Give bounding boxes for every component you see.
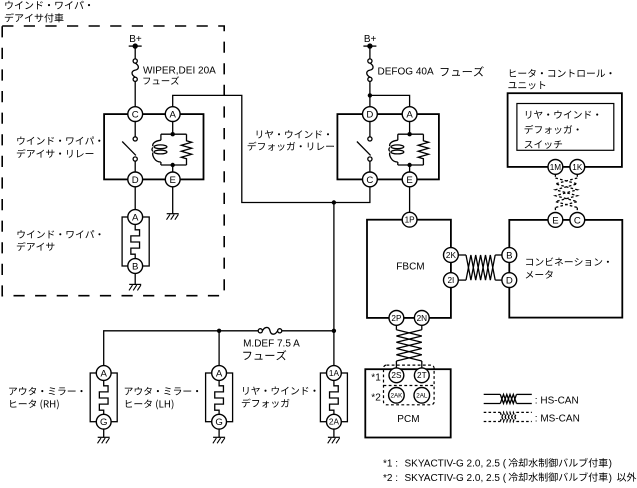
svg-text:): )	[609, 473, 612, 484]
node B+ terminal WIPER	[129, 43, 142, 48]
wire WIPER,DEI fuse to relay terminal C	[134, 81, 136, 106]
label rear window defogger relay line1	[257, 130, 329, 138]
label LH mirror heater line1	[125, 387, 198, 395]
label B+ WIPER	[129, 34, 142, 45]
box rear window defogger switch	[517, 104, 614, 151]
terminal 2AL PCM	[414, 388, 430, 404]
wire B+ feed to WIPER,DEI fuse	[134, 46, 136, 59]
node junction LH heater on bus	[217, 329, 221, 366]
heater element rear window defogger	[330, 380, 339, 414]
svg-text:1M: 1M	[550, 163, 562, 172]
terminal 2K FBCM	[444, 248, 459, 263]
terminal 2A rear window defogger	[327, 414, 342, 429]
terminal D WIPER relay	[128, 172, 143, 187]
wire bus row with mirror heaters	[104, 331, 259, 366]
wire deicer B to ground	[134, 273, 136, 284]
switch inside WIPER relay	[122, 137, 137, 161]
dashed group star1 and star2 terminals	[384, 365, 435, 405]
svg-text:DEFOG 40A: DEFOG 40A	[378, 66, 434, 77]
box FBCM	[367, 220, 451, 318]
svg-text:G: G	[100, 417, 107, 428]
terminal C WIPER relay	[128, 107, 143, 122]
terminal 2T PCM	[414, 368, 429, 383]
element RH mirror heater box	[90, 373, 117, 422]
heater element inside deicer	[131, 224, 140, 258]
svg-text:WIPER,DEI 20A: WIPER,DEI 20A	[143, 65, 216, 76]
terminal D DEFOG relay	[363, 107, 378, 122]
svg-text:C: C	[574, 215, 581, 226]
svg-text:: MS-CAN: : MS-CAN	[535, 414, 580, 425]
svg-text:: HS-CAN: : HS-CAN	[535, 396, 579, 407]
svg-text:G: G	[215, 417, 222, 428]
label combination meter line1	[526, 257, 609, 266]
terminal G RH mirror heater	[96, 414, 111, 429]
terminal B deicer	[128, 259, 143, 274]
legend MS-CAN text	[535, 414, 580, 425]
label star2	[371, 393, 381, 404]
svg-text:A: A	[132, 212, 139, 223]
svg-text:2AK: 2AK	[390, 393, 403, 400]
fuse WIPER,DEI 20A	[132, 59, 138, 82]
terminal 1K heater control	[570, 160, 585, 175]
footnote star1	[383, 458, 612, 470]
label combination meter line2	[526, 270, 553, 278]
terminal G LH mirror heater	[212, 414, 227, 429]
ground under RH mirror heater	[98, 437, 110, 443]
terminal 2AK PCM	[389, 388, 405, 404]
wire HS-CAN twisted pair FBCM to meter	[458, 255, 502, 280]
node junction above DEFOG relay	[368, 93, 410, 107]
terminal A DEFOG relay	[402, 107, 417, 122]
label windshield wiper deicer line1	[18, 230, 101, 238]
wire DEFOG fuse to junction above relay	[369, 81, 371, 95]
box heater control unit	[508, 93, 622, 167]
ground under LH mirror heater	[213, 437, 225, 443]
label RH mirror heater line1	[9, 387, 82, 395]
svg-text:C: C	[366, 175, 373, 186]
terminal 1A rear window defogger	[327, 366, 342, 381]
node coil top junction WIPER	[171, 132, 175, 136]
terminal E WIPER relay	[165, 172, 180, 187]
svg-text:2S: 2S	[391, 371, 402, 380]
svg-text:A: A	[216, 368, 223, 379]
svg-text:B+: B+	[129, 34, 142, 45]
terminal E combination meter	[548, 213, 563, 228]
svg-text:A: A	[100, 368, 107, 379]
wire WIPER relay D to deicer A	[134, 187, 136, 210]
svg-text:B: B	[506, 250, 512, 261]
svg-text:E: E	[169, 175, 175, 186]
svg-text:E: E	[552, 215, 558, 226]
svg-text:*1 :: *1 :	[383, 459, 398, 470]
relay box rear window defogger relay	[337, 114, 439, 179]
footnote star2	[383, 472, 636, 484]
label windshield wiper deicer line2	[17, 242, 55, 251]
svg-text:2A: 2A	[329, 418, 340, 427]
terminal 2S PCM	[389, 368, 404, 383]
wire B+ feed to DEFOG fuse	[369, 46, 371, 59]
svg-text:2N: 2N	[417, 314, 428, 323]
svg-text:2T: 2T	[417, 371, 427, 380]
node junction cross wire / defogger feed	[332, 200, 336, 330]
terminal A deicer	[128, 210, 143, 225]
svg-text:A: A	[169, 110, 176, 121]
label star1	[371, 372, 381, 383]
box combination meter	[509, 220, 622, 318]
wire DEFOG coil stubs	[409, 121, 411, 172]
heater element LH mirror	[215, 380, 224, 414]
terminal 1P FBCM	[402, 212, 417, 227]
svg-text:D: D	[366, 110, 373, 121]
svg-text:2P: 2P	[391, 314, 402, 323]
terminal 2N FBCM	[414, 311, 429, 326]
label PCM	[397, 414, 419, 425]
node coil bottom junction DEFOG	[407, 163, 411, 167]
wire RH heater G to ground	[103, 429, 105, 437]
wire WIPER switch stubs	[134, 121, 136, 172]
svg-text:1P: 1P	[405, 216, 416, 225]
svg-text:2I: 2I	[447, 276, 454, 285]
coil and resistor inside DEFOG relay	[389, 134, 429, 165]
ground under rear window defogger	[328, 437, 340, 443]
label windshield wiper deicer equipped line2	[5, 13, 64, 22]
coil and resistor inside WIPER relay	[152, 134, 192, 165]
wire WIPER coil stubs	[172, 121, 174, 172]
svg-text:*2 :: *2 :	[383, 473, 398, 484]
svg-text:2K: 2K	[446, 251, 457, 260]
svg-text:SKYACTIV-G 2.0, 2.5 (: SKYACTIV-G 2.0, 2.5 (	[405, 459, 507, 470]
svg-text:B: B	[132, 261, 138, 272]
svg-text:D: D	[506, 276, 513, 287]
node junction defogger column on bus	[282, 329, 336, 366]
terminal B combination meter	[502, 248, 517, 263]
label rear window defogger switch line2	[525, 125, 579, 134]
wire WIPER relay A up-right-down to cross wire	[173, 95, 334, 202]
label M.DEF fuse	[243, 338, 300, 349]
dashed option box (with windshield wiper deicer)	[2, 26, 224, 296]
fuse M.DEF 7.5A	[258, 327, 282, 334]
terminal C DEFOG relay	[363, 172, 378, 187]
svg-text:*2: *2	[371, 393, 381, 404]
label heater control unit line1	[510, 69, 612, 77]
terminal E DEFOG relay	[402, 172, 417, 187]
wire MS-CAN twisted pair heater control to meter	[555, 174, 577, 212]
element LH mirror heater box	[206, 373, 233, 422]
svg-text:E: E	[406, 175, 412, 186]
terminal A LH mirror heater	[212, 366, 227, 381]
switch inside DEFOG relay	[357, 137, 372, 161]
fuse DEFOG 40A	[367, 59, 373, 82]
element windshield wiper deicer box	[122, 217, 149, 266]
legend HS-CAN text	[535, 396, 579, 407]
svg-text:SKYACTIV-G 2.0, 2.5 (: SKYACTIV-G 2.0, 2.5 (	[405, 473, 507, 484]
label heater control unit line2	[508, 81, 545, 89]
svg-text:PCM: PCM	[397, 414, 419, 425]
label RH mirror heater line2	[10, 399, 58, 409]
wire cross to DEFOG relay C	[334, 187, 370, 203]
ground under deicer B	[129, 284, 141, 290]
label rear window defogger line2	[242, 399, 290, 408]
wire rear defogger 2A to ground	[333, 429, 335, 437]
svg-text:B+: B+	[364, 34, 377, 45]
svg-text:FBCM: FBCM	[396, 262, 424, 273]
relay box windshield wiper deicer relay	[104, 114, 203, 179]
svg-text:C: C	[132, 110, 139, 121]
svg-text:A: A	[406, 110, 413, 121]
node coil bottom junction WIPER	[171, 163, 175, 167]
label fuse JP WIPER	[143, 76, 179, 84]
svg-text:M.DEF 7.5 A: M.DEF 7.5 A	[243, 338, 300, 349]
label M.DEF fuse JP	[243, 350, 286, 360]
terminal 2I FBCM	[444, 273, 459, 288]
terminal 1M heater control	[548, 160, 563, 175]
terminal D combination meter	[502, 273, 517, 288]
svg-text:D: D	[132, 175, 139, 186]
box PCM	[365, 369, 450, 437]
label rear window defogger switch line1	[526, 110, 598, 118]
node B+ terminal DEFOG	[363, 43, 376, 48]
wire WIPER relay E to ground	[172, 187, 174, 214]
svg-text:*1: *1	[371, 372, 381, 383]
svg-text:1K: 1K	[572, 163, 583, 172]
label FBCM	[396, 262, 424, 273]
label LH mirror heater line2	[126, 399, 174, 409]
label rear window defogger switch line3	[525, 140, 562, 148]
svg-text:2AL: 2AL	[416, 393, 428, 400]
wire LH heater G to ground	[218, 429, 220, 437]
label DEFOG 40A fuse	[378, 66, 484, 77]
terminal A RH mirror heater	[96, 366, 111, 381]
wire DEFOG relay E to FBCM 1P	[409, 187, 411, 213]
wire DEFOG switch stubs	[369, 121, 371, 172]
label rear window defogger relay line2	[248, 142, 334, 151]
label WIPER,DEI 20A	[143, 65, 216, 76]
label windshield wiper deicer relay line2	[17, 149, 94, 158]
ground under WIPER relay E	[167, 214, 179, 220]
element rear window defogger box	[320, 373, 347, 422]
label windshield wiper deicer relay line1	[17, 136, 100, 144]
label B+ DEFOG	[364, 34, 377, 45]
terminal 2P FBCM	[389, 311, 404, 326]
label rear window defogger line1	[243, 387, 315, 395]
node coil top junction DEFOG	[407, 132, 411, 136]
heater element RH mirror	[99, 380, 108, 414]
svg-text:1A: 1A	[329, 369, 340, 378]
terminal C combination meter	[570, 213, 585, 228]
terminal A WIPER relay	[165, 107, 180, 122]
label windshield wiper deicer equipped line1	[5, 1, 90, 10]
legend MS-CAN symbol	[484, 412, 532, 421]
wire HS-CAN twisted pair FBCM to PCM	[396, 325, 421, 368]
svg-text:): )	[609, 459, 612, 470]
legend HS-CAN symbol	[484, 394, 532, 403]
